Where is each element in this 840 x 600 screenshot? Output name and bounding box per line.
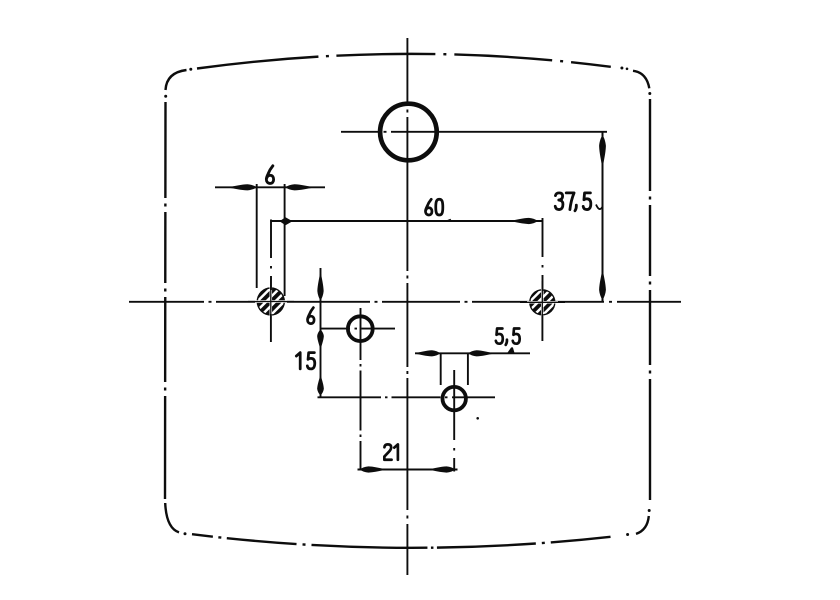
arrow 6 right (points left)	[285, 184, 312, 190]
dimension 6 top	[215, 184, 325, 296]
label 15	[296, 353, 314, 369]
arrow 15 bottom	[317, 377, 324, 396]
blob 60 left	[280, 217, 293, 225]
hole M6 left (hatched)	[248, 280, 294, 323]
arrow 21 left (points left)	[360, 466, 385, 472]
label 6 top	[266, 166, 273, 184]
plate outline bottom edge (chain line)	[192, 534, 626, 548]
plate outline corner top-right	[620, 67, 651, 96]
arrow 6 left (points right)	[231, 184, 258, 190]
label 21	[384, 444, 398, 459]
plate outline corner bottom-left	[165, 503, 186, 535]
label 60	[425, 199, 442, 215]
tick 15 bottom / axis of D3	[318, 396, 496, 398]
arrow 6v up / 15 top	[317, 330, 324, 348]
label 37,5	[555, 193, 591, 211]
arrow 6v down	[317, 274, 323, 301]
dimension 37,5	[596, 131, 603, 302]
arrow 60 right (points right)	[513, 218, 538, 224]
leader tick 5,5	[507, 347, 515, 354]
label 5,5	[496, 329, 520, 345]
arrow 5,5 right (points left)	[468, 350, 492, 356]
arrow 5,5 left (points right)	[417, 350, 441, 356]
plate outline corner top-left	[164, 68, 192, 98]
plate outline top edge (chain line)	[197, 54, 612, 69]
arrow 37,5 down	[599, 272, 606, 300]
dimension 60	[271, 218, 543, 291]
hole D2 small left circle	[321, 308, 396, 470]
plate outline left edge (chain line)	[164, 102, 167, 499]
dimension 6 vertical	[320, 268, 322, 397]
plate outline corner bottom-right	[626, 509, 651, 536]
arrow 37,5 up	[599, 135, 606, 165]
arrow 21 right (points right)	[431, 466, 456, 472]
centerline below M6 left	[270, 314, 272, 342]
speck artifact	[476, 417, 479, 420]
label 6 mid	[308, 308, 315, 324]
plate outline right edge (chain line)	[649, 99, 651, 500]
hole D3 small right circle	[443, 370, 466, 472]
hole M6 right (hatched)	[520, 281, 565, 324]
horizontal centerline	[129, 301, 681, 303]
centerline below M6 right	[541, 314, 543, 341]
tick under 60	[443, 219, 452, 222]
hole U1 large circle	[341, 104, 607, 161]
vertical centerline	[406, 38, 408, 575]
dimension 21	[358, 469, 458, 471]
dimension 5,5	[415, 353, 530, 385]
